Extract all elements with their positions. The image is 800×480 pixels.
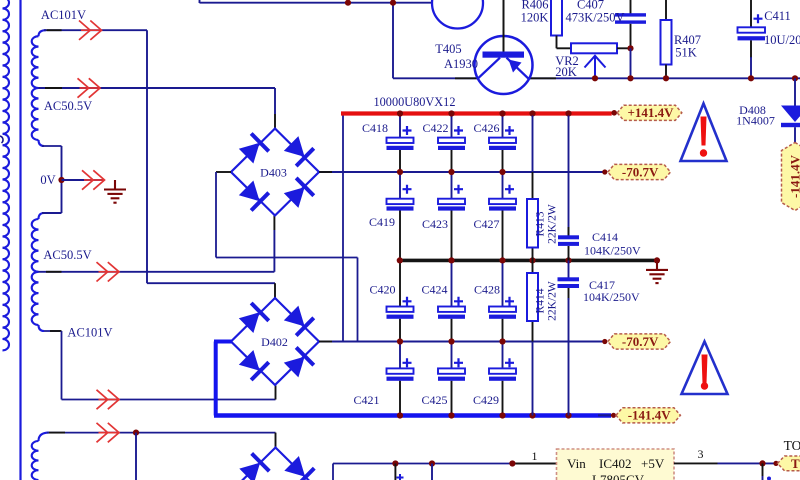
wire up to D403 bottom	[273, 230, 275, 272]
junction pin3 line	[759, 460, 765, 466]
svg-text:0V: 0V	[40, 173, 55, 187]
net flag -70.7V upper	[608, 164, 671, 179]
junction R407	[663, 75, 669, 81]
svg-text:22K/2W: 22K/2W	[547, 204, 559, 244]
svg-text:R414: R414	[535, 288, 547, 313]
wire to VR2 left	[557, 47, 572, 49]
svg-text:120K: 120K	[521, 11, 549, 25]
wire AC101V lower tap	[44, 330, 62, 332]
capacitor C420	[369, 283, 413, 319]
junction red rail x=502.5	[499, 110, 505, 116]
transistor T405 A1930	[475, 0, 533, 94]
svg-text:C420: C420	[369, 283, 395, 297]
arrow S5 tap	[97, 423, 120, 442]
0V thick black line	[400, 259, 658, 263]
+141.4V red rail	[341, 111, 612, 115]
wire AC101V top tap	[44, 29, 147, 31]
junction C407 column	[627, 75, 633, 81]
wire IC402 pin3	[674, 462, 718, 464]
junction blue rail x=502.5	[499, 412, 505, 418]
junction -70.7 lower x=400	[397, 338, 403, 344]
arrow AC101V lower	[97, 390, 120, 409]
svg-text:-70.7V: -70.7V	[622, 164, 659, 179]
capacitor C424	[421, 283, 465, 319]
junction D408	[792, 75, 798, 81]
IC402 L7805CV +5V regulator	[557, 449, 675, 480]
warning triangle lower	[682, 342, 728, 395]
svg-text:C423: C423	[422, 217, 448, 231]
arrow 0V	[82, 170, 105, 189]
net flag -70.7V lower	[608, 334, 671, 349]
diode D402 lower-right	[283, 347, 314, 378]
svg-text:1: 1	[532, 449, 538, 463]
wire R413/R414 column	[532, 116, 534, 173]
svg-text:C424: C424	[421, 283, 447, 297]
wire D403 bottom lead	[273, 216, 275, 231]
junction blue rail x=568.5	[565, 412, 571, 418]
svg-text:22K/2W: 22K/2W	[547, 281, 559, 321]
svg-text:C419: C419	[369, 215, 395, 229]
svg-text:C426: C426	[473, 121, 499, 135]
wire VR2 right	[617, 47, 631, 49]
junction -70.7 lower end	[602, 339, 607, 344]
diode D402 lower-left	[238, 349, 269, 380]
capacitor C426	[473, 121, 516, 150]
capacitor C425	[421, 358, 465, 407]
wire collector lead black	[455, 77, 477, 79]
capacitor C417 104K/250V	[558, 277, 580, 281]
junction C411	[748, 75, 754, 81]
svg-text:C427: C427	[473, 217, 499, 231]
junction top line B	[390, 0, 396, 6]
diode D403 upper-left	[238, 134, 269, 165]
junction top line A	[345, 0, 351, 6]
svg-text:104K/250V: 104K/250V	[584, 244, 641, 258]
capacitor C422	[422, 121, 465, 150]
resistor R406 120K	[551, 0, 562, 36]
svg-text:C421: C421	[353, 393, 379, 407]
wire 0V step	[42, 145, 62, 147]
wire from red rail down (line A)	[342, 115, 344, 342]
wire stub down A	[394, 464, 396, 480]
svg-text:C422: C422	[422, 121, 448, 135]
warning triangle upper	[681, 104, 727, 162]
svg-text:C414: C414	[592, 230, 618, 244]
wire AC50.5V lower tap	[39, 271, 275, 273]
svg-text:1N4007: 1N4007	[736, 114, 775, 128]
wire to D402 top	[147, 282, 275, 284]
wire capacitor column x=451.5	[451, 116, 453, 138]
wire top-left stub	[199, 0, 201, 3]
wire collector line left	[393, 77, 478, 79]
wire 0V to ground	[62, 179, 105, 181]
svg-text:TO: TO	[791, 456, 800, 471]
wire from top line down to T405 collector	[392, 3, 394, 79]
diode D402 upper-left	[238, 303, 269, 334]
net flag -141.4V (vertical, right edge)	[782, 143, 800, 211]
svg-text:TO: TO	[784, 438, 800, 453]
wire lower winding S5 tap	[47, 432, 276, 434]
wire emitter line right to D408	[528, 77, 800, 79]
wire stub down B	[431, 464, 433, 480]
arrow AC50.5V lower	[97, 262, 120, 281]
svg-text:-70.7V: -70.7V	[622, 334, 659, 349]
transformer lower winding S5	[39, 433, 50, 441]
junction red rail end	[611, 110, 617, 116]
svg-text:3: 3	[698, 447, 704, 461]
junction blue rail end	[611, 413, 616, 418]
wire -70.7V upper line	[319, 171, 605, 173]
capacitor C419	[369, 185, 414, 229]
-141.4V thick blue rail	[214, 340, 232, 344]
wire AC50.5V upper tap	[39, 87, 276, 89]
svg-text:AC101V: AC101V	[67, 326, 112, 340]
net flag -141.4V	[616, 408, 680, 423]
wire emitter lead black	[529, 77, 556, 79]
wire S5 junction stub down	[135, 433, 137, 480]
wire capacitor column x=400	[399, 116, 401, 138]
wire D403 left lead	[216, 171, 231, 173]
net flag TO (partial right edge)	[778, 456, 800, 471]
ground 0V center	[646, 260, 668, 283]
junction 0V line start	[397, 257, 403, 263]
svg-text:AC50.5V: AC50.5V	[43, 248, 91, 262]
svg-text:51K: 51K	[675, 46, 697, 60]
diode D402 upper-right	[283, 304, 314, 335]
wire stub below pin3	[762, 463, 764, 476]
ground 0V	[104, 180, 126, 203]
junction -70.7 lower x=502.5	[499, 338, 505, 344]
junction 0V line x=532.5	[529, 257, 535, 263]
wire tap lead black	[46, 271, 62, 273]
junction red rail x=400	[397, 110, 403, 116]
svg-text:C425: C425	[421, 393, 447, 407]
wire -70.7V lower line	[319, 341, 605, 343]
svg-text:10U/200V: 10U/200V	[764, 33, 800, 47]
capacitor C423	[422, 185, 465, 231]
junction bottom line B	[429, 460, 435, 466]
wire capacitor column x=502.5	[502, 116, 504, 138]
capacitor C411 10U/200V	[738, 0, 766, 78]
transformer secondary winding S3 (0V-AC50.5V)	[39, 213, 45, 219]
capacitor C407 473K/250V	[615, 0, 646, 48]
wire R406 to VR2	[556, 36, 558, 49]
junction blue rail x=451.5	[448, 412, 454, 418]
wire tap lead black	[45, 87, 62, 89]
potentiometer VR2 20K	[571, 43, 617, 78]
svg-text:C411: C411	[764, 9, 791, 23]
junction S5 tap	[133, 430, 139, 436]
capacitor C421	[353, 358, 413, 407]
junction blue rail x=400	[397, 412, 403, 418]
junction IC402 pin1	[509, 460, 515, 466]
capacitor C428	[474, 283, 516, 319]
arrow AC50.5V upper	[78, 78, 101, 97]
wire AC101V vertical down	[146, 30, 148, 283]
transistor T404 (partial circle at top)	[432, 0, 483, 29]
svg-text:T405: T405	[435, 42, 461, 56]
wire down to D403	[274, 88, 276, 114]
svg-text:IC402: IC402	[599, 456, 632, 471]
svg-text:473K/250V: 473K/250V	[565, 11, 624, 25]
wire bottom line to IC402	[332, 464, 334, 480]
arrow AC101V upper	[79, 21, 102, 40]
diode D403 upper-right	[283, 135, 314, 166]
svg-text:D403: D403	[260, 166, 287, 180]
wire D402 bottom lead	[275, 386, 277, 400]
resistor R413 22K/2W	[527, 199, 538, 248]
junction blue rail x=532.5	[529, 412, 535, 418]
wire D403 top lead	[274, 114, 276, 129]
wire tap lead black	[47, 29, 62, 31]
bridge rectifier D402	[231, 298, 319, 385]
diode D403 lower-left	[238, 179, 269, 210]
svg-text:AC101V: AC101V	[41, 8, 86, 22]
svg-text:C428: C428	[474, 283, 500, 297]
resistor R414 22K/2W	[527, 273, 538, 321]
junction at TO flag	[773, 461, 778, 466]
diode D401 upper-right	[283, 455, 314, 480]
junction -70.7 upper end	[602, 169, 607, 174]
junction -70.7 lower x=451.5	[448, 338, 454, 344]
bridge rectifier D401 (partial)	[232, 448, 320, 480]
wire C414/C417 column	[568, 116, 570, 236]
capacitor C418	[362, 121, 414, 150]
svg-text:AC50.5V: AC50.5V	[44, 99, 92, 113]
junction 0V line end	[654, 257, 660, 263]
junction VR2 wiper	[592, 75, 598, 81]
junction 0V line x=451.5	[448, 257, 454, 263]
transformer secondary winding S4 (to AC101V lower)	[32, 272, 39, 325]
junction VR2/C407	[627, 45, 633, 51]
net flag +141.4V	[617, 105, 682, 120]
resistor R407 51K	[661, 0, 672, 78]
diode D403 lower-right	[283, 178, 314, 209]
wire C407 down to emitter line	[630, 48, 632, 78]
capacitor C429	[473, 358, 516, 407]
wire D402 top lead	[274, 283, 276, 298]
svg-text:R413: R413	[535, 211, 547, 236]
svg-text:104K/250V: 104K/250V	[583, 290, 640, 304]
svg-text:C429: C429	[473, 393, 499, 407]
svg-text:-141.4V: -141.4V	[628, 408, 672, 423]
svg-text:C418: C418	[362, 121, 388, 135]
wire top horizontal	[200, 2, 433, 4]
junction 0V line x=502.5	[499, 257, 505, 263]
diode D401 upper-left	[238, 453, 269, 480]
diode D408 1N4007	[781, 78, 800, 142]
junction red rail x=451.5	[448, 110, 454, 116]
junction 0V line x=568.5	[565, 257, 571, 263]
stray label fragment at left edge	[0, 136, 3, 143]
junction -70.7 upper x=400	[397, 169, 403, 175]
junction -70.7 upper x=451.5	[448, 169, 454, 175]
svg-text:D402: D402	[261, 335, 288, 349]
svg-text:+141.4V: +141.4V	[627, 105, 674, 120]
junction red rail x=568.5	[565, 110, 571, 116]
wire D401 top lead	[275, 433, 277, 448]
svg-text:-141.4V: -141.4V	[787, 154, 800, 198]
transformer core	[19, 0, 21, 480]
transformer secondary winding S2	[32, 88, 39, 140]
svg-text:20K: 20K	[555, 65, 577, 79]
capacitor + mark below edge	[397, 474, 404, 480]
svg-text:+5V: +5V	[641, 456, 665, 471]
bridge rectifier D403	[231, 129, 319, 216]
svg-text:Vin: Vin	[567, 456, 586, 471]
junction 0V tap	[58, 177, 64, 183]
junction -70.7 upper x=502.5	[499, 169, 505, 175]
svg-text:A1930: A1930	[444, 57, 478, 71]
wire D403 left vertex routing	[215, 172, 217, 258]
svg-text:10000U80VX12: 10000U80VX12	[374, 95, 456, 109]
capacitor C414 104K/250V	[558, 235, 579, 239]
transformer secondary winding S1 (AC101V-AC50.5V)	[39, 30, 47, 36]
junction red rail x=532.5	[529, 110, 535, 116]
junction bottom line A	[392, 460, 398, 466]
svg-text:L7805CV: L7805CV	[592, 472, 645, 480]
transformer primary winding	[3, 0, 10, 350]
capacitor C427	[473, 185, 516, 231]
